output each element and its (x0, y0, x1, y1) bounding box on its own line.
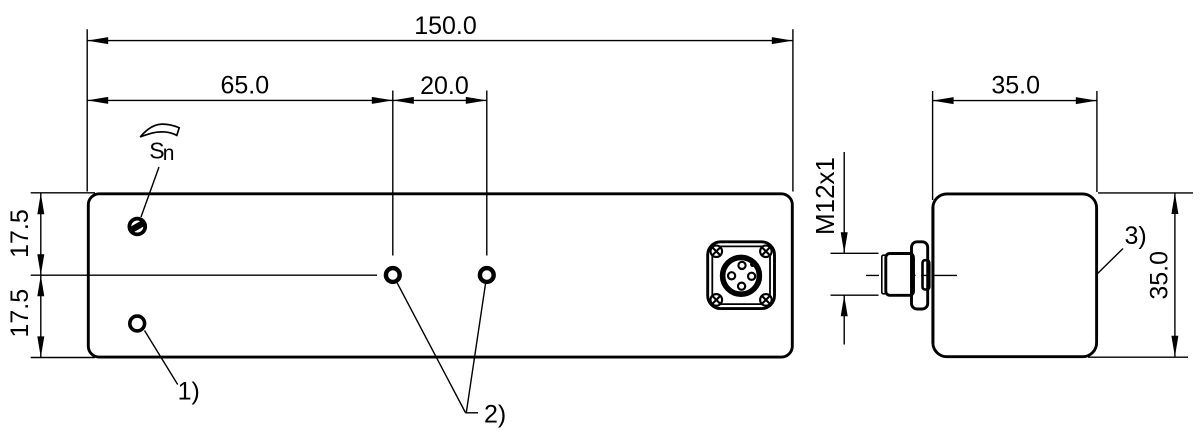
front view body (88, 194, 792, 357)
svg-text:1): 1) (178, 378, 200, 406)
connector face inner square (712, 246, 770, 304)
dim M12x1 (843, 152, 845, 253)
dim 17.5 line (40, 193, 42, 357)
dim 150.0 (87, 40, 793, 42)
pin right (748, 273, 755, 280)
svg-text:M12x1: M12x1 (810, 157, 840, 235)
label 2 tick (465, 412, 478, 414)
pin left (728, 272, 735, 279)
connector washer (923, 260, 930, 289)
svg-text:35.0: 35.0 (1146, 251, 1174, 300)
svg-text:17.5: 17.5 (6, 209, 34, 258)
pin top (738, 262, 745, 269)
extension line 150 right (792, 29, 794, 191)
keying notch (750, 262, 755, 267)
extension line M12 bottom (831, 294, 879, 296)
dim 35.0 right (1174, 193, 1176, 357)
pin bottom (738, 283, 745, 290)
centerline front (mid extension line) (31, 274, 377, 276)
Sn arc symbol (140, 124, 179, 137)
extension line top-left horizontal (31, 192, 95, 194)
extension line bottom-left horizontal (31, 357, 95, 359)
hole 2b (480, 268, 494, 282)
leader 2a (396, 281, 465, 412)
leader 2b (466, 282, 486, 413)
extension line 65/20 middle (392, 91, 394, 256)
leader Sn (141, 167, 159, 217)
svg-text:3): 3) (1125, 222, 1147, 250)
corner screw bottom-right (760, 294, 772, 306)
side view body (933, 194, 1097, 357)
svg-text:2): 2) (484, 401, 506, 429)
extension line 35right top (1098, 192, 1193, 194)
svg-text:17.5: 17.5 (6, 289, 34, 338)
leader 3 (1096, 249, 1123, 276)
connector barrel (886, 254, 914, 296)
connector tip (882, 255, 887, 294)
corner screw bottom-left (711, 294, 723, 306)
M12 socket ring (723, 257, 760, 294)
extension line M12 top (831, 252, 879, 254)
hole 1 (130, 316, 145, 331)
hole 2a (386, 268, 400, 282)
extension line 20 right (486, 91, 488, 256)
connector side centerline (866, 274, 957, 276)
corner screw top-left (711, 246, 723, 258)
extension line 150 left (86, 29, 88, 191)
dim 65.0 / 20.0 (87, 99, 487, 101)
screw hole Sn (128, 217, 148, 237)
leader 1 (145, 331, 178, 385)
dim 35.0 top (933, 100, 1097, 102)
connector face outer square (708, 242, 775, 309)
svg-text:n: n (163, 142, 175, 165)
svg-text:150.0: 150.0 (414, 12, 477, 40)
svg-text:35.0: 35.0 (991, 71, 1040, 99)
body left edge over connector (931, 207, 934, 343)
svg-text:65.0: 65.0 (220, 72, 269, 100)
corner screw top-right (760, 246, 772, 258)
extension line 35right bottom (1088, 356, 1188, 358)
extension line 35top left (932, 91, 934, 200)
connector nut (912, 242, 928, 309)
svg-text:20.0: 20.0 (420, 72, 469, 100)
extension line 35top right (1096, 91, 1098, 192)
